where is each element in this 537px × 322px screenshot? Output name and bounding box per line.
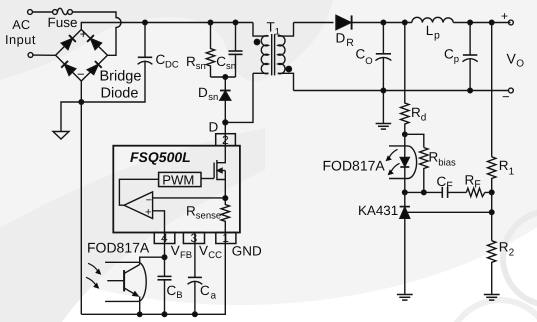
svg-text:p: p [434,30,440,42]
svg-text:Fuse: Fuse [48,15,78,30]
wire to primary ground [61,102,81,132]
svg-text:2: 2 [509,247,515,258]
node D [223,120,228,125]
label Dsn [198,85,218,103]
svg-text:+: + [501,9,508,23]
node CDC top [143,20,148,25]
svg-text:O: O [365,56,372,67]
optocoupler FOD817A transistor side [86,262,146,314]
svg-text:CC: CC [208,250,222,261]
node divider lower [489,210,494,215]
terminal VO- [502,88,513,104]
ground KA431 [397,295,413,301]
svg-text:1: 1 [222,231,229,245]
wire primary ground rail [81,244,225,315]
label Csn [216,54,236,72]
pin 2 box [216,133,236,147]
terminal VO+ [501,9,513,25]
bridge rectifier BD1 [56,27,108,81]
label VFB [171,243,192,261]
capacitor CDC [138,23,153,65]
wire pin3 to Ca [194,233,196,278]
label Cp [444,46,459,65]
svg-text:DC: DC [165,60,179,71]
node CO top [381,20,386,25]
label R2 [499,239,515,258]
svg-text:V: V [171,243,180,258]
wire fuse to bridge AC node with hop [72,12,121,55]
wire secondary top to DR [294,22,334,24]
label DR [336,30,355,49]
label CDC [156,52,179,71]
label VCC [199,243,222,261]
optocoupler FOD817A LED side [386,134,417,192]
svg-text:Diode: Diode [101,86,139,102]
resistor R2 [488,241,496,295]
svg-text:FOD817A: FOD817A [87,240,150,256]
svg-text:sn: sn [196,61,206,72]
wire AC neutral to bridge [33,54,56,56]
capacitor Csn [229,23,243,78]
node DC- junction [79,100,84,105]
svg-text:sn: sn [226,61,236,72]
pin 1 box [216,231,236,245]
ground secondary near CO [376,124,392,130]
node Rbias bottom [422,190,427,195]
wire D node to primary bottom [225,73,253,122]
node Cp top [468,20,473,25]
inductor Lp [412,17,453,22]
svg-text:GND: GND [232,244,262,259]
wire AC line to fuse [32,11,52,13]
label T1 [267,20,280,38]
svg-text:sense: sense [196,211,221,222]
svg-text:p: p [454,54,459,65]
capacitor Ca [188,277,203,314]
svg-text:KA431: KA431 [358,203,398,218]
resistor Rsense [221,198,229,243]
node CO bottom [381,88,386,93]
svg-text:R: R [465,172,475,187]
svg-text:bias: bias [438,158,456,169]
svg-text:V: V [507,51,517,67]
label Rd [411,105,426,124]
node snubber / Dsn [223,75,228,80]
label CO [356,46,373,67]
op-amp U1 [119,179,225,232]
resistor R1 [488,157,496,193]
wire output return rail [294,90,509,92]
node Csn top [233,20,238,25]
svg-text:a: a [211,290,217,301]
wire pin4 to VFB node [164,233,166,258]
wire VFB to opto collector [140,257,165,264]
capacitor CF [442,187,447,198]
wire R1 branch [491,23,493,157]
wire CO ground stub [382,91,384,124]
svg-text:sn: sn [208,92,218,103]
svg-text:L: L [426,23,434,38]
svg-text:+: + [145,206,151,218]
label RF [465,172,481,190]
svg-text:C: C [444,46,454,61]
node Rd bottom [403,132,407,136]
label VO [507,51,525,70]
transformer T1 [253,23,294,91]
transistor Q1 mosfet [201,160,225,198]
wire Rbias top [405,134,424,147]
label AC Input [5,17,36,47]
node Rd top [403,20,408,25]
wire DC- to CDC bottom [81,61,145,102]
svg-text:FSQ500L: FSQ500L [130,149,191,165]
label Rsn [186,54,206,72]
resistor RF [466,188,485,196]
terminal AC line 1 [28,10,33,15]
capacitor CO [375,23,391,91]
label Bridge Diode [100,68,142,101]
diode Dsn [220,77,231,122]
label Ca [200,283,217,301]
svg-text:1: 1 [275,27,280,38]
svg-text:PWM: PWM [162,172,194,187]
wire bridge negative to ground node [80,81,82,102]
label Lp [426,23,440,42]
label Rbias [429,150,456,169]
wire DC- down left rail [80,102,82,314]
resistor Rbias [420,148,428,193]
svg-text:D: D [198,85,208,100]
resistor Rd [401,23,409,135]
svg-text:AC: AC [12,17,30,32]
svg-text:B: B [176,290,182,301]
svg-text:R: R [499,239,509,254]
svg-text:C: C [156,52,166,67]
svg-text:F: F [446,180,452,192]
terminal AC line 2 [28,53,33,58]
node emitter rail [138,312,142,316]
svg-text:FB: FB [180,250,192,261]
wire compensation CF RF [405,191,492,193]
svg-text:D: D [336,30,346,45]
label Rsense [186,204,221,222]
svg-text:R: R [346,37,354,49]
svg-text:C: C [200,283,210,298]
svg-text:R: R [499,158,509,173]
pin 4 box [154,231,175,245]
wire divider segment [491,192,493,212]
svg-text:−: − [502,89,510,104]
ground R2 [484,295,500,301]
wire DC+ rail [81,23,253,30]
PWM block [159,172,201,187]
svg-text:d: d [421,112,427,123]
svg-text:V: V [199,243,208,258]
svg-text:3: 3 [191,231,198,245]
svg-text:O: O [516,59,524,70]
svg-text:F: F [474,179,480,191]
wire D to pin2 to mosfet drain [217,122,225,162]
label CB [167,283,183,301]
node divider upper [489,190,494,195]
label R1 [499,158,515,177]
wire DR to + output [352,22,511,24]
ground primary (open triangle) [53,132,69,140]
svg-text:C: C [216,54,226,69]
node mosfet source [223,196,228,201]
node Rsn top [208,20,213,25]
IC FSQ500L box [113,146,240,233]
node Ca bottom [193,312,198,317]
node R1 top [489,20,494,25]
fuse F1 [53,8,73,14]
label CF [437,174,453,192]
svg-text:R: R [429,150,439,165]
node CB bottom [162,312,167,317]
capacitor CB [158,257,172,314]
capacitor Cp [463,23,478,91]
svg-text:C: C [437,174,447,189]
svg-text:C: C [167,283,177,298]
svg-text:1: 1 [509,166,515,177]
pin 3 box [183,231,204,245]
svg-text:T: T [267,20,275,35]
node VFB [162,255,167,260]
node Cp bottom [468,88,473,93]
node LED cathode junction [403,190,408,195]
svg-text:FOD817A: FOD817A [323,158,386,174]
svg-text:Input: Input [5,32,36,47]
svg-text:R: R [186,54,196,69]
svg-text:−: − [77,67,85,82]
svg-text:R: R [186,204,196,219]
svg-text:C: C [356,46,366,61]
diode DR [336,15,352,29]
wire snubber bottom [211,76,236,78]
svg-text:Bridge: Bridge [100,68,142,84]
svg-text:−: − [146,195,152,207]
svg-text:R: R [411,105,421,120]
resistor Rsn [206,23,214,78]
shunt regulator KA431 [400,192,492,294]
wire to R2 [491,212,493,240]
svg-text:D: D [209,120,219,135]
